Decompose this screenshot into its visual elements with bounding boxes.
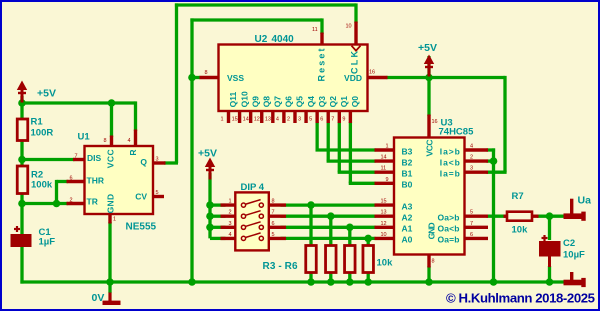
svg-text:15: 15 xyxy=(232,117,238,123)
pin stub 4040 Q1 xyxy=(338,110,341,123)
svg-text:1: 1 xyxy=(229,199,232,205)
pin stub 4040 Q0 xyxy=(349,110,352,123)
wire R2 bottom to TR node xyxy=(20,194,23,204)
wire 555 GND drop xyxy=(108,222,111,282)
pin stub comparator Oa<b xyxy=(463,226,488,229)
svg-text:B0: B0 xyxy=(402,180,413,190)
wire R7 to output node xyxy=(537,215,565,218)
pin stub 4040 Q3 xyxy=(315,110,318,123)
wire Q3 drop xyxy=(315,122,318,150)
wire DIP feed row3 xyxy=(210,226,226,229)
svg-text:THR: THR xyxy=(87,176,104,186)
svg-text:6: 6 xyxy=(320,117,323,123)
svg-text:4040: 4040 xyxy=(272,34,295,45)
svg-text:13: 13 xyxy=(381,210,387,216)
wire VSS short green xyxy=(190,76,200,79)
clock wedge on CLK pin xyxy=(352,46,361,51)
svg-text:6: 6 xyxy=(272,221,275,227)
svg-text:3: 3 xyxy=(470,166,473,172)
junction Ia<b tie xyxy=(490,157,498,165)
svg-text:4: 4 xyxy=(276,117,279,123)
pin stub 4040 VDD xyxy=(367,76,388,79)
pin stub 555 THR xyxy=(67,180,86,183)
svg-text:© H.Kuhlmann 2018-2025: © H.Kuhlmann 2018-2025 xyxy=(446,291,595,306)
wire C2 bottom to 0V rail xyxy=(548,266,551,282)
svg-text:7: 7 xyxy=(272,210,275,216)
pin stub 555 R xyxy=(134,130,137,148)
pin stub 555 Q xyxy=(152,161,166,164)
svg-text:2: 2 xyxy=(70,198,73,204)
svg-text:10: 10 xyxy=(346,24,352,30)
svg-text:Q11: Q11 xyxy=(228,91,238,107)
pin stub 555 VCC xyxy=(110,136,113,148)
pin stub 4040 Q11 xyxy=(227,110,230,123)
svg-text:2: 2 xyxy=(287,117,290,123)
wire CLK net left vertical from 555 Q xyxy=(175,3,178,163)
wire 555 VCC drop xyxy=(110,103,113,137)
svg-text:6: 6 xyxy=(470,232,473,238)
svg-text:11: 11 xyxy=(381,166,387,172)
DIP switch body xyxy=(235,192,268,250)
wire Q1 to B1 xyxy=(338,171,376,174)
svg-text:12: 12 xyxy=(254,117,260,123)
wire Q0 drop xyxy=(349,122,352,183)
svg-text:3: 3 xyxy=(298,117,301,123)
svg-text:8: 8 xyxy=(272,199,275,205)
svg-text:R1: R1 xyxy=(31,117,44,128)
pin stub 4040 Q6 xyxy=(282,110,285,123)
pin stub DIP right row4 xyxy=(264,237,287,240)
pin stub comparator A3 xyxy=(375,203,396,206)
svg-text:Ia>b: Ia>b xyxy=(440,146,460,156)
svg-text:U2: U2 xyxy=(255,34,268,45)
wire R1 top to +5V xyxy=(20,96,23,119)
wire A0 row xyxy=(281,237,376,240)
wire Q3 to B3 xyxy=(315,148,375,151)
svg-text:10µF: 10µF xyxy=(563,250,585,261)
svg-text:14: 14 xyxy=(243,117,249,123)
switch contact row3 xyxy=(241,222,263,230)
junction DIP row1 xyxy=(206,201,214,209)
svg-text:+5V: +5V xyxy=(418,42,437,54)
wire CLK net top horizontal xyxy=(175,3,356,6)
svg-text:7: 7 xyxy=(75,154,78,160)
pin stub 4040 Q10 xyxy=(238,110,241,123)
svg-text:R7: R7 xyxy=(512,191,524,202)
pin stub DIP right row1 xyxy=(264,203,287,206)
pin stub DIP left row1 xyxy=(221,203,242,206)
junction A2/R4 xyxy=(327,212,335,220)
junction 555 VCC xyxy=(108,99,116,107)
pin stub DIP left row3 xyxy=(221,226,242,229)
svg-text:10: 10 xyxy=(381,232,387,238)
wire +5V to Ia=b staple top xyxy=(429,76,505,79)
svg-text:9: 9 xyxy=(386,177,389,183)
wire R3 to rail xyxy=(309,272,312,282)
junction R5 rail xyxy=(346,278,354,286)
wire R1 bottom to DIS node xyxy=(20,140,23,166)
wire R6 to rail xyxy=(367,272,370,282)
wire 4040 VDD to +5V xyxy=(387,76,430,79)
svg-text:4: 4 xyxy=(128,138,131,144)
svg-text:Q9: Q9 xyxy=(250,96,260,108)
svg-text:Q8: Q8 xyxy=(261,96,271,108)
junction R4 rail xyxy=(327,278,335,286)
+5V supply DIP xyxy=(205,158,215,180)
svg-text:6: 6 xyxy=(70,176,73,182)
pin stub comparator B0 xyxy=(375,182,396,185)
wire CLK net right vertical xyxy=(354,3,357,23)
wire 555 Q jog to vertical xyxy=(164,161,178,164)
comparator U3 74HC85 body xyxy=(394,138,465,255)
pin stub 555 TR xyxy=(67,202,86,205)
junction R6 rail xyxy=(364,278,372,286)
svg-text:11: 11 xyxy=(312,27,318,33)
svg-text:100R: 100R xyxy=(31,128,54,139)
wire 0V rail xyxy=(20,280,564,283)
pin stub 555 CV xyxy=(152,195,164,198)
lead R7 right xyxy=(531,214,539,217)
svg-text:100k: 100k xyxy=(31,180,53,191)
port arrow 0V net xyxy=(564,272,586,287)
svg-text:3: 3 xyxy=(156,157,159,163)
svg-text:16: 16 xyxy=(369,70,375,76)
junction TR node xyxy=(18,200,26,208)
wire Ia>b jog xyxy=(487,148,496,151)
resistor R3 xyxy=(306,246,317,273)
svg-text:CLK: CLK xyxy=(349,51,359,75)
svg-text:VCC: VCC xyxy=(424,140,434,157)
svg-text:CV: CV xyxy=(135,191,147,201)
wire Reset drop xyxy=(320,18,323,34)
svg-text:A0: A0 xyxy=(402,235,413,245)
svg-text:VSS: VSS xyxy=(227,73,244,83)
svg-text:1: 1 xyxy=(113,217,116,223)
wire GND top horizontal xyxy=(190,18,322,21)
pin stub comparator Ia>b xyxy=(463,148,488,151)
pin stub comparator B3 xyxy=(375,148,396,151)
junction A0/R6 xyxy=(364,235,372,243)
svg-text:A2: A2 xyxy=(402,213,413,223)
+5V supply left xyxy=(17,81,27,103)
svg-text:B2: B2 xyxy=(402,157,413,167)
svg-text:DIP 4: DIP 4 xyxy=(241,182,265,193)
wire +5V rail at 555 xyxy=(22,101,136,104)
svg-text:1: 1 xyxy=(386,144,389,150)
svg-text:15: 15 xyxy=(381,199,387,205)
svg-text:Q4: Q4 xyxy=(306,96,316,108)
pin stub DIP left row4 xyxy=(221,237,242,240)
junction A1/R5 xyxy=(346,224,354,232)
pin stub comparator Ia=b xyxy=(463,170,488,173)
wire Ia low tie vertical to 0V xyxy=(492,148,495,282)
pin stub 4040 Reset xyxy=(320,33,323,46)
resistor R7 xyxy=(507,212,532,221)
svg-text:8: 8 xyxy=(205,70,208,76)
svg-text:16: 16 xyxy=(432,119,438,125)
pin stub comparator VCC xyxy=(427,115,430,140)
junction DIP row3 xyxy=(206,224,214,232)
timer U1 NE555 body xyxy=(85,146,154,214)
svg-text:8: 8 xyxy=(432,259,435,265)
junction DIP row2 xyxy=(206,212,214,220)
svg-text:1µF: 1µF xyxy=(39,236,56,247)
pin stub 555 GND xyxy=(108,213,111,224)
pin stub 4040 VSS xyxy=(200,76,220,79)
pin stub comparator A1 xyxy=(375,226,396,229)
resistor R1 xyxy=(17,119,28,141)
junction R3 rail xyxy=(307,278,315,286)
junction GND vertical to rail xyxy=(188,278,196,286)
pin stub DIP left row2 xyxy=(221,214,242,217)
svg-text:Q: Q xyxy=(140,157,147,167)
pin stub comparator Oa>b xyxy=(463,214,488,217)
wire DIP feed row2 xyxy=(210,215,226,218)
svg-text:8: 8 xyxy=(104,138,107,144)
resistor R6 xyxy=(363,246,374,273)
wire DIP +5V vertical xyxy=(208,173,211,238)
pin stub 4040 Q4 xyxy=(304,110,307,123)
pin stub 4040 Q5 xyxy=(293,110,296,123)
+5V supply right xyxy=(424,55,434,77)
svg-text:4: 4 xyxy=(229,232,232,238)
svg-text:+5V: +5V xyxy=(37,88,56,100)
svg-text:1: 1 xyxy=(221,117,224,123)
svg-text:0V: 0V xyxy=(92,292,105,304)
wire output node down to C2 xyxy=(548,216,551,240)
wire Oa>b to R7 xyxy=(487,215,506,218)
switch contact row4 xyxy=(241,233,263,241)
wire R4 to rail xyxy=(329,272,332,282)
svg-text:R: R xyxy=(128,149,138,155)
pin stub comparator Oa=b xyxy=(463,237,488,240)
wire Q2 to B2 xyxy=(327,159,376,162)
pin stub 555 DIS xyxy=(73,158,86,161)
pin stub comparator GND xyxy=(427,253,430,268)
svg-text:U1: U1 xyxy=(78,132,91,143)
capacitor C1 polarized xyxy=(11,226,32,247)
wire DIS horizontal xyxy=(22,158,75,161)
pin stub 4040 Q9 xyxy=(249,110,252,123)
wire R5 to rail xyxy=(348,272,351,282)
resistor R4 xyxy=(326,246,337,273)
svg-text:7: 7 xyxy=(331,117,334,123)
svg-text:C2: C2 xyxy=(563,238,575,249)
wire Q0 to B0 xyxy=(349,182,376,185)
pin stub comparator B1 xyxy=(375,170,396,173)
wire C1 bottom to 0V rail xyxy=(20,247,23,284)
wire comparator GND drop xyxy=(427,266,430,282)
wire GND vertical left of 4040 xyxy=(190,18,193,282)
wire R4 drop xyxy=(329,216,332,246)
svg-text:R3 - R6: R3 - R6 xyxy=(263,261,298,272)
port arrow Ua xyxy=(564,199,586,221)
wire TR node down to C1 xyxy=(20,204,23,235)
svg-text:Q3: Q3 xyxy=(317,96,327,108)
svg-text:Ia=b: Ia=b xyxy=(440,169,460,179)
junction 4040 VSS xyxy=(188,74,196,82)
wire Q1 drop xyxy=(338,122,341,172)
svg-text:NE555: NE555 xyxy=(126,222,157,233)
svg-text:3: 3 xyxy=(229,221,232,227)
svg-text:Q10: Q10 xyxy=(239,91,249,107)
svg-text:B1: B1 xyxy=(402,169,413,179)
svg-text:5: 5 xyxy=(272,232,275,238)
svg-text:Oa>b: Oa>b xyxy=(438,213,460,223)
junction +5V VDD node xyxy=(425,74,433,82)
junction +5V/R1 xyxy=(18,99,26,107)
svg-text:4: 4 xyxy=(470,144,473,150)
junction comparator GND rail xyxy=(425,278,433,286)
wire R3 drop xyxy=(309,205,312,246)
pin stub comparator A0 xyxy=(375,237,396,240)
junction THR/TR xyxy=(53,200,61,208)
svg-text:10k: 10k xyxy=(377,258,394,269)
wire A2 row xyxy=(281,215,376,218)
wire A1 row xyxy=(281,226,376,229)
lead R7 left xyxy=(504,214,509,217)
svg-text:Q0: Q0 xyxy=(350,96,360,108)
svg-text:GND: GND xyxy=(426,222,436,239)
junction A3/R3 xyxy=(307,201,315,209)
svg-text:Q5: Q5 xyxy=(295,96,305,108)
svg-text:Oa=b: Oa=b xyxy=(438,235,460,245)
wire DIP feed row4 xyxy=(210,237,226,240)
svg-text:+5V: +5V xyxy=(198,148,217,160)
switch contact row2 xyxy=(241,211,263,219)
pin stub comparator B2 xyxy=(375,159,396,162)
svg-text:Ia<b: Ia<b xyxy=(440,157,460,167)
svg-text:GND: GND xyxy=(106,194,116,214)
junction DIS node xyxy=(18,156,26,164)
svg-text:13: 13 xyxy=(265,117,271,123)
svg-text:DIS: DIS xyxy=(87,153,102,163)
switch contact row1 xyxy=(241,200,263,208)
wire R5 drop xyxy=(348,227,351,246)
pin stub comparator Ia<b xyxy=(463,159,488,162)
wire R6 drop xyxy=(367,238,370,246)
svg-text:5: 5 xyxy=(309,117,312,123)
wire 555 R pin drop xyxy=(134,101,137,131)
junction Ia tie to rail xyxy=(490,278,498,286)
svg-text:B3: B3 xyxy=(402,146,413,156)
svg-text:Oa<b: Oa<b xyxy=(438,224,460,234)
svg-text:VCC: VCC xyxy=(106,149,116,168)
junction C2 rail corner xyxy=(546,278,554,286)
svg-text:14: 14 xyxy=(381,155,387,161)
wire A3 row xyxy=(281,203,376,206)
svg-text:74HC85: 74HC85 xyxy=(439,127,475,138)
wire THR horizontal xyxy=(57,180,69,183)
pin stub 4040 Q7 xyxy=(271,110,274,123)
svg-text:A1: A1 xyxy=(402,224,413,234)
pin stub DIP right row2 xyxy=(264,214,287,217)
svg-text:Q7: Q7 xyxy=(273,96,283,108)
svg-text:TR: TR xyxy=(87,196,98,206)
capacitor C2 polarized xyxy=(539,235,561,267)
svg-text:5: 5 xyxy=(156,190,159,196)
wire Q2 drop xyxy=(327,122,330,161)
wire Ia<b jog xyxy=(487,159,494,162)
pin stub 4040 CLK xyxy=(354,22,357,46)
resistor R5 xyxy=(345,246,356,273)
svg-text:7: 7 xyxy=(470,221,473,227)
svg-text:Ua: Ua xyxy=(578,195,592,207)
wire comparator VCC riser xyxy=(427,56,430,116)
svg-text:A3: A3 xyxy=(402,201,413,211)
pin stub 4040 Q8 xyxy=(260,110,263,123)
counter U2 4040 body xyxy=(219,45,368,112)
wire +5V staple vertical xyxy=(503,76,506,172)
svg-text:Q6: Q6 xyxy=(284,96,294,108)
svg-text:Q1: Q1 xyxy=(339,96,349,108)
junction 555 GND to rail xyxy=(106,278,114,286)
svg-text:2: 2 xyxy=(470,155,473,161)
wire Ia=b horizontal xyxy=(487,171,507,174)
svg-text:10k: 10k xyxy=(512,225,529,236)
supply symbol 0V below rail xyxy=(103,282,121,305)
wire TR horizontal xyxy=(22,202,68,205)
pin stub comparator A2 xyxy=(375,214,396,217)
svg-text:5: 5 xyxy=(470,210,473,216)
svg-text:12: 12 xyxy=(381,221,387,227)
resistor R2 xyxy=(17,166,28,194)
pin stub 4040 Q2 xyxy=(327,110,330,123)
pin stub DIP right row3 xyxy=(264,226,287,229)
junction output node xyxy=(546,212,554,220)
wire DIP feed row1 xyxy=(210,203,226,206)
wire THR to TR vertical xyxy=(55,180,58,204)
svg-text:2: 2 xyxy=(229,210,232,216)
svg-text:Q2: Q2 xyxy=(328,96,338,108)
svg-text:9: 9 xyxy=(342,117,345,123)
